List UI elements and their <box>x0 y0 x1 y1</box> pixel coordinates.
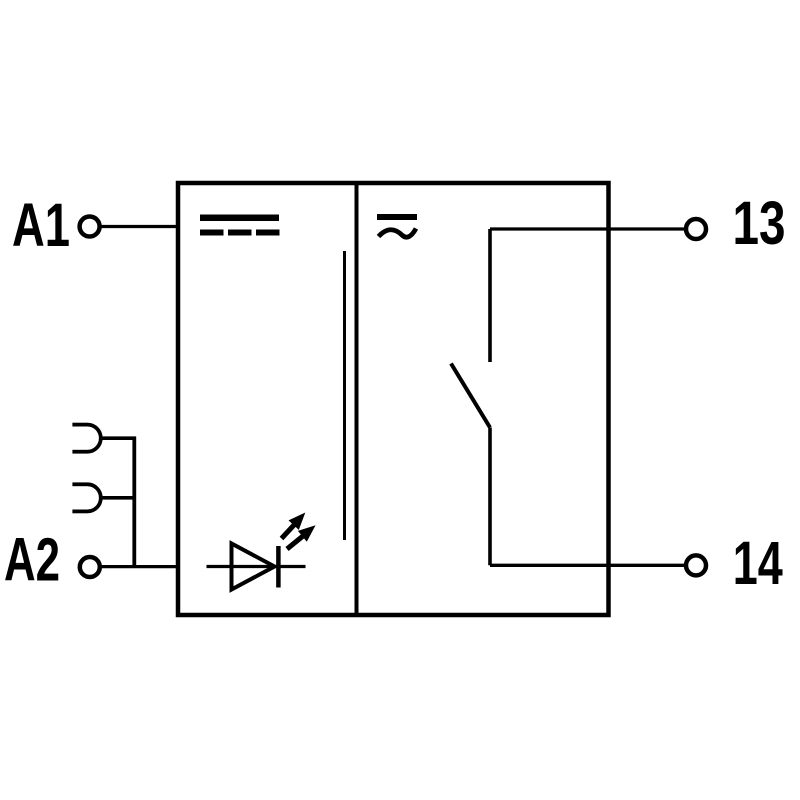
relay module box K1 <box>178 183 609 615</box>
LED D1 wire <box>207 565 306 568</box>
svg-text:A1: A1 <box>12 191 70 259</box>
DC symbol (dashed bar) <box>200 230 224 236</box>
terminal A1 circle <box>80 217 100 237</box>
wire hook upper to bus <box>101 436 136 440</box>
galvanic isolation barrier line <box>343 251 346 540</box>
divider between input and output section <box>355 183 359 615</box>
wire A2 to box <box>101 565 178 568</box>
AC symbol overline <box>377 214 417 220</box>
connector contact hook lower <box>72 484 100 511</box>
LED light arrow 1 <box>282 515 304 539</box>
terminal 13 circle <box>686 219 706 239</box>
wire hook lower to bus <box>101 496 136 500</box>
wire 13 horizontal <box>490 227 684 230</box>
wire 14 vertical <box>488 428 492 566</box>
svg-text:14: 14 <box>733 529 783 597</box>
AC symbol tilde <box>379 229 417 238</box>
svg-text:A2: A2 <box>4 526 60 594</box>
wire 14 horizontal <box>490 564 684 567</box>
terminal 14 circle <box>686 555 706 575</box>
wire 13 vertical to fixed contact <box>488 229 492 362</box>
switch S1 blade (NO contact) <box>451 364 490 428</box>
bus wire vertical <box>132 437 136 567</box>
wire A1 to box <box>101 225 178 228</box>
LED D1 cathode bar <box>276 546 281 588</box>
DC symbol (solid bar) <box>200 215 279 222</box>
svg-text:13: 13 <box>733 189 786 257</box>
terminal A2 circle <box>80 557 100 577</box>
LED light arrow 2 <box>287 527 314 549</box>
connector contact hook upper <box>72 425 100 452</box>
LED D1 triangle anode <box>232 544 275 590</box>
